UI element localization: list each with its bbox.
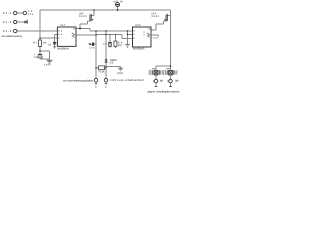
svg-text:X1-1: X1-1 (3, 12, 12, 15)
svg-text:+12V vom schaltnetzteil: +12V vom schaltnetzteil (110, 78, 144, 82)
svg-text:X1-3: X1-3 (3, 30, 12, 33)
svg-text:10u: 10u (89, 46, 95, 49)
svg-text:9540: 9540 (79, 15, 87, 18)
svg-text:+UB: +UB (113, 1, 119, 4)
svg-text:U1B: U1B (135, 23, 141, 27)
svg-text:R1: R1 (33, 41, 38, 44)
svg-text:out: out (153, 37, 158, 40)
svg-text:100n: 100n (44, 63, 51, 66)
svg-text:C7: C7 (103, 43, 108, 46)
svg-text:X1-2: X1-2 (3, 21, 12, 24)
svg-text:play-in 1 wiedergabe-chassis: play-in 1 wiedergabe-chassis (148, 89, 180, 93)
svg-text:C2: C2 (34, 56, 38, 59)
svg-text:MC4558CP: MC4558CP (57, 48, 69, 51)
svg-text:U1A: U1A (60, 23, 66, 27)
svg-text:9540: 9540 (152, 15, 160, 18)
svg-text:F1 2A: F1 2A (99, 71, 105, 74)
svg-text:GND: GND (117, 72, 123, 75)
svg-text:4k7: 4k7 (118, 44, 123, 47)
svg-text:zum netzteil-modul (s): zum netzteil-modul (s) (2, 35, 23, 38)
svg-text:10u: 10u (28, 13, 34, 16)
svg-text:MC4558CP: MC4558CP (133, 48, 145, 51)
svg-text:D5: D5 (110, 61, 114, 64)
svg-text:10k: 10k (43, 41, 48, 44)
svg-text:zur symmetrierung-platine: zur symmetrierung-platine (63, 78, 93, 82)
